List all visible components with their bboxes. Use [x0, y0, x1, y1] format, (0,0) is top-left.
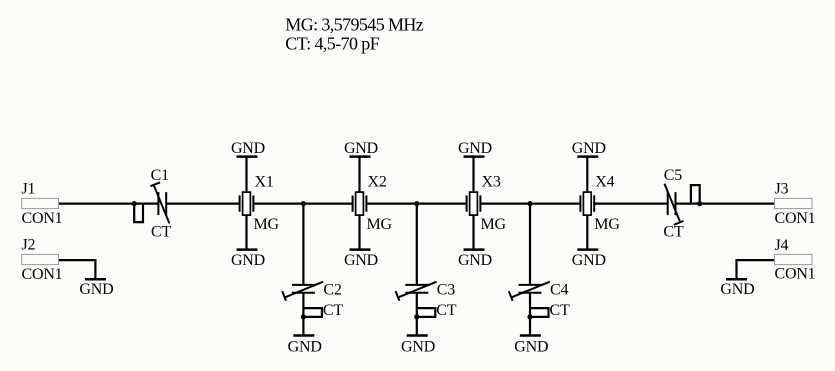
svg-text:CT: CT: [151, 224, 171, 241]
ground X4 top: [572, 140, 606, 157]
wire X3 to X4: [480, 203, 580, 205]
connector J4: [775, 237, 816, 283]
connector J3: [775, 181, 816, 228]
ground X1 bottom: [231, 250, 265, 270]
crystal X4: [580, 173, 620, 233]
wire branch C4 lower: [529, 293, 531, 336]
wire branch C2 upper: [302, 204, 304, 285]
trimmer capacitor C4: [509, 282, 570, 320]
wire branch C4 upper: [529, 204, 531, 285]
svg-text:GND: GND: [458, 252, 492, 269]
svg-text:CT: CT: [436, 302, 456, 319]
svg-text:J4: J4: [775, 237, 789, 254]
svg-text:CON1: CON1: [22, 266, 63, 283]
wire X4 gnd stems: [586, 157, 588, 250]
svg-text:CON1: CON1: [775, 210, 816, 227]
wire C5 to J3: [676, 203, 775, 205]
trimmer capacitor C5: [663, 167, 702, 240]
ground X3 bottom: [458, 250, 492, 270]
svg-text:GND: GND: [720, 281, 754, 298]
wire J2 to GND: [59, 260, 96, 278]
wire X3 gnd stems: [472, 157, 474, 250]
svg-text:C1: C1: [151, 167, 169, 184]
crystal X2: [353, 173, 393, 233]
svg-text:MG: MG: [254, 216, 280, 233]
svg-text:CT: CT: [550, 302, 570, 319]
crystal X1: [240, 173, 280, 233]
svg-text:J3: J3: [775, 181, 789, 198]
svg-text:GND: GND: [572, 252, 606, 269]
wire X2 to X3: [366, 203, 466, 205]
svg-text:CON1: CON1: [775, 266, 816, 283]
trimmer capacitor C2: [282, 282, 343, 320]
svg-text:X3: X3: [482, 173, 501, 190]
wire J1 to C1: [59, 203, 159, 205]
svg-text:GND: GND: [344, 252, 378, 269]
svg-text:C3: C3: [437, 282, 455, 299]
svg-text:GND: GND: [79, 281, 113, 298]
wire C1 to X1: [166, 203, 239, 205]
svg-text:X4: X4: [595, 173, 614, 190]
node junction X2-C3: [414, 201, 419, 206]
wire branch C3 lower: [416, 293, 418, 336]
svg-text:X2: X2: [368, 173, 387, 190]
wire branch C2 lower: [302, 293, 304, 336]
wire X4 to C5: [594, 203, 668, 205]
svg-text:CT: 4,5-70 pF: CT: 4,5-70 pF: [285, 34, 379, 54]
svg-text:MG: MG: [367, 216, 393, 233]
node junction X1-C2: [301, 201, 306, 206]
svg-text:GND: GND: [344, 140, 378, 157]
ground X2 bottom: [344, 250, 378, 270]
svg-text:CON1: CON1: [22, 210, 63, 227]
svg-text:MG: MG: [594, 216, 620, 233]
wire X1 gnd stems: [245, 157, 247, 250]
ground C4: [514, 336, 548, 356]
node junction X3-C4: [527, 201, 532, 206]
wire X2 gnd stems: [358, 157, 360, 250]
connector J2: [22, 237, 63, 284]
svg-text:GND: GND: [288, 338, 322, 355]
crystal X3: [467, 173, 507, 233]
svg-text:X1: X1: [255, 173, 274, 190]
ground J2: [79, 279, 113, 298]
wire J4 to GND: [737, 260, 775, 278]
svg-text:GND: GND: [401, 338, 435, 355]
svg-text:CT: CT: [663, 224, 683, 241]
svg-text:GND: GND: [458, 140, 492, 157]
ground J4: [720, 279, 754, 298]
svg-text:C2: C2: [323, 282, 341, 299]
svg-text:GND: GND: [572, 140, 606, 157]
ground X3 top: [458, 140, 492, 157]
wire main segments: [59, 157, 775, 336]
ground C3: [401, 336, 435, 356]
svg-text:C5: C5: [664, 167, 682, 184]
ground X1 top: [231, 140, 265, 157]
trimmer capacitor C3: [396, 282, 457, 320]
svg-text:MG: MG: [481, 216, 507, 233]
svg-text:GND: GND: [514, 338, 548, 355]
svg-text:MG: 3,579545 MHz: MG: 3,579545 MHz: [285, 14, 424, 34]
ground X2 top: [344, 140, 378, 157]
connector J1: [22, 180, 63, 227]
svg-text:C4: C4: [550, 282, 568, 299]
svg-text:J2: J2: [22, 237, 36, 254]
wire branch C3 upper: [416, 204, 418, 285]
ground C2: [288, 336, 322, 356]
svg-text:J1: J1: [22, 180, 36, 197]
svg-text:GND: GND: [231, 252, 265, 269]
svg-text:CT: CT: [323, 302, 343, 319]
trimmer capacitor C1: [132, 167, 172, 241]
svg-text:GND: GND: [231, 140, 265, 157]
ground X4 bottom: [572, 250, 606, 270]
wire X1 to X2: [253, 203, 352, 205]
